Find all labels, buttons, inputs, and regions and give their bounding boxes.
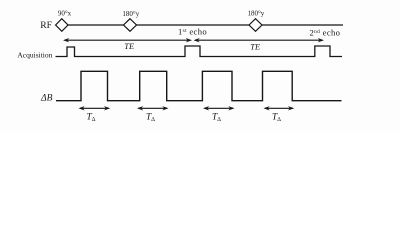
TΔ interval arrow 4 [264, 106, 295, 110]
TE interval arrow 2 (double headed) [194, 38, 325, 42]
TΔ interval arrow 1 [79, 106, 111, 110]
Acquisition trace wire with sampling pulse and echo windows [56, 46, 343, 57]
TΔ interval arrow 3 [203, 106, 235, 110]
svg-text:90°x: 90°x [58, 9, 72, 17]
180°y pulse diamond 1 [124, 19, 137, 32]
svg-text:180°y: 180°y [122, 10, 139, 18]
TΔ interval arrow 2 [137, 106, 169, 110]
svg-text:Acquisition: Acquisition [17, 51, 52, 60]
svg-text:ΔB: ΔB [40, 94, 53, 104]
svg-text:180°y: 180°y [247, 9, 264, 17]
svg-text:TE: TE [124, 41, 135, 51]
svg-text:TE: TE [250, 41, 261, 51]
180°y pulse diamond 2 [249, 19, 262, 32]
svg-text:1st echo: 1st echo [178, 27, 207, 37]
90°x pulse diamond [56, 19, 68, 32]
TE interval arrow 1 (double headed) [63, 38, 192, 42]
RF baseline wire [56, 24, 344, 26]
ΔB gradient trace wire with four pulses [56, 71, 342, 100]
svg-text:RF: RF [40, 20, 52, 31]
svg-text:2nd echo: 2nd echo [310, 28, 341, 38]
